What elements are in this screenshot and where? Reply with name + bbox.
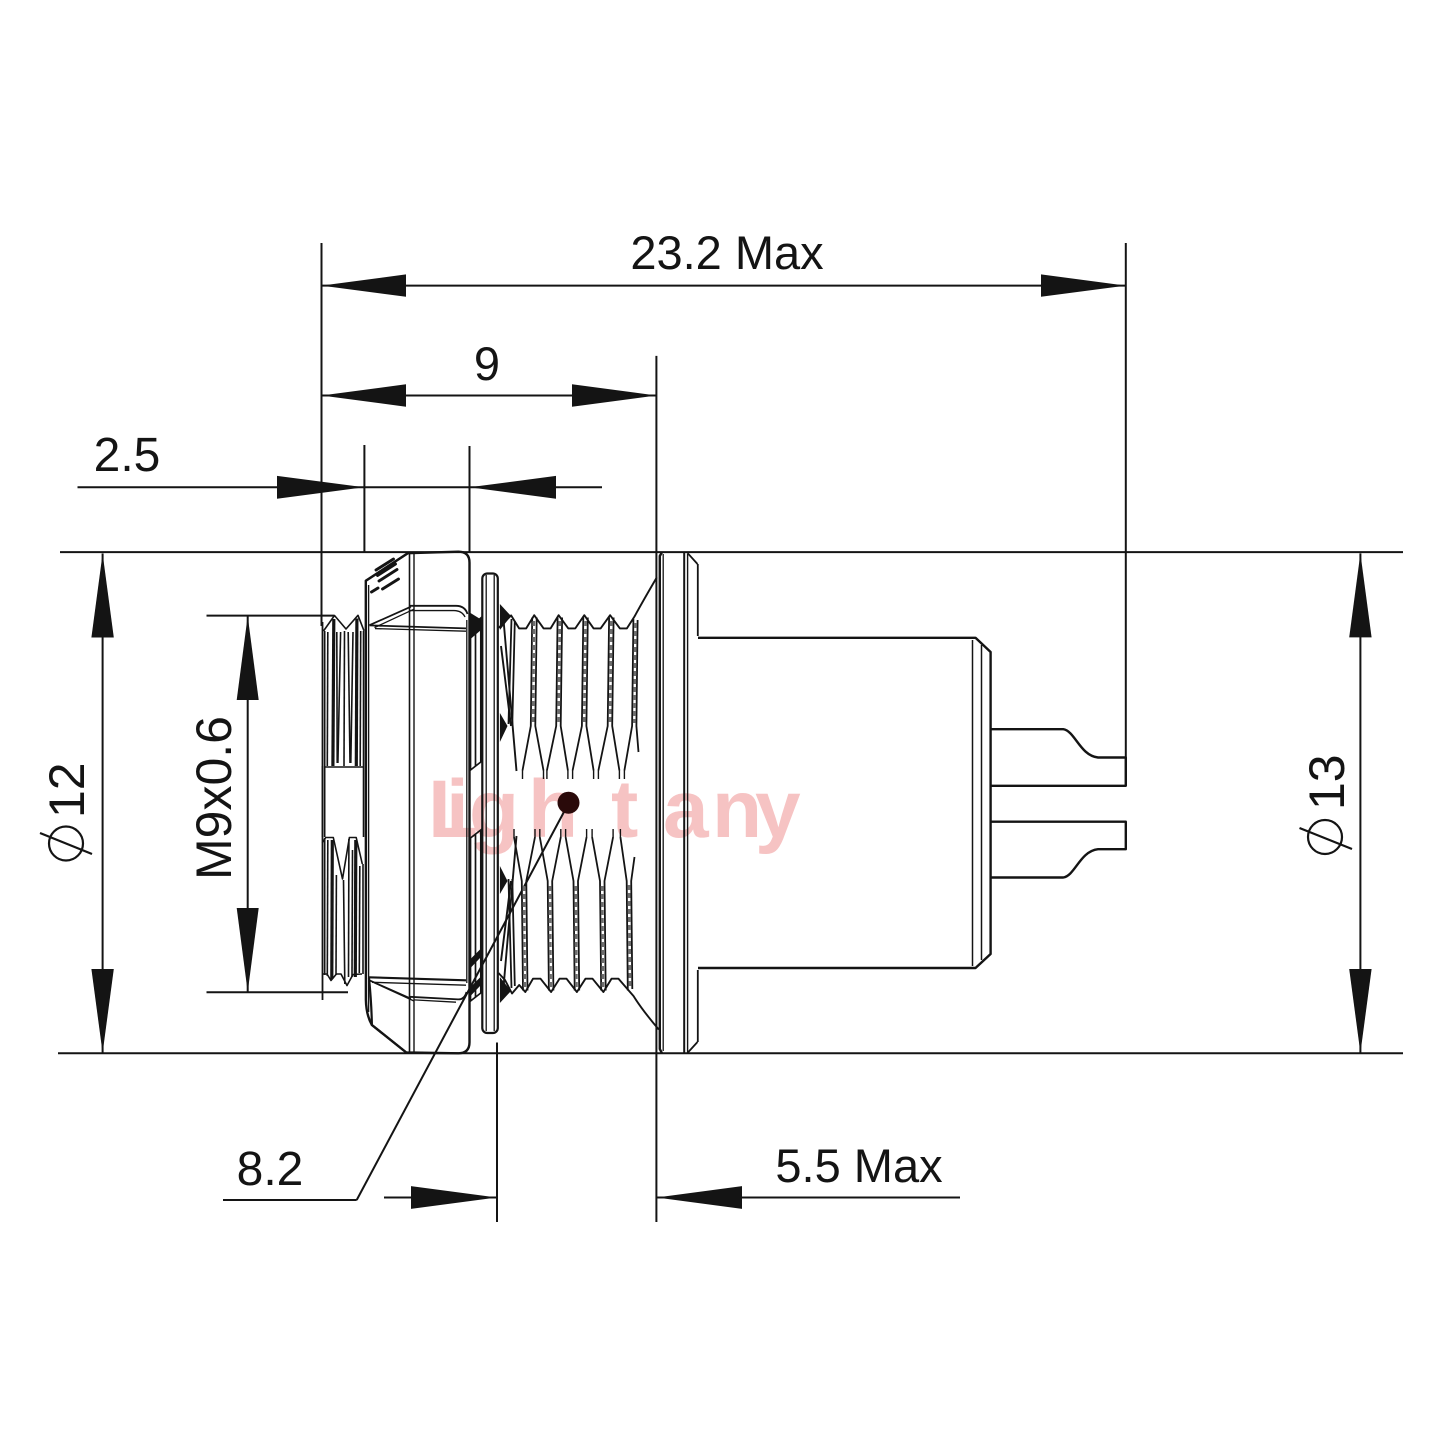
knurled front ring [322, 615, 364, 1000]
svg-text:Lightany: Lightany [428, 764, 801, 855]
svg-text:23.2 Max: 23.2 Max [630, 226, 823, 279]
dimension diameter 12 [39, 554, 114, 1054]
dimension 2.5 [78, 429, 603, 552]
coupling nut [366, 552, 470, 1054]
dimension 23.2 Max [322, 226, 1126, 786]
panel washer [482, 574, 498, 1034]
flange [660, 552, 698, 1053]
svg-text:13: 13 [1299, 754, 1355, 810]
leader 8.2 [223, 810, 565, 1200]
svg-text:9: 9 [474, 337, 500, 390]
nut marking text [372, 559, 399, 592]
upper pin [991, 729, 1126, 786]
lower pin [991, 822, 1126, 878]
svg-text:5.5 Max: 5.5 Max [775, 1139, 942, 1192]
serrated lock washer [471, 613, 482, 1001]
svg-text:8.2: 8.2 [237, 1143, 304, 1196]
reference dot [558, 792, 580, 814]
dimension M9x0.6 [186, 616, 348, 993]
dimension diameter 13 [1299, 553, 1372, 1053]
svg-text:12: 12 [39, 762, 95, 818]
rear body [698, 638, 991, 968]
svg-text:2.5: 2.5 [94, 429, 161, 482]
extension line diameter top (full width) [60, 551, 1403, 553]
extension line diameter bottom (full width) [58, 1052, 1403, 1054]
thread top teeth [509, 618, 639, 780]
thread M9 top band [499, 577, 657, 771]
thread bottom teeth [509, 829, 635, 991]
dimension 5.5 Max [384, 1043, 960, 1223]
svg-text:M9x0.6: M9x0.6 [186, 716, 242, 880]
thread M9 bottom band [499, 836, 659, 1030]
dimension 9 [322, 337, 657, 1222]
